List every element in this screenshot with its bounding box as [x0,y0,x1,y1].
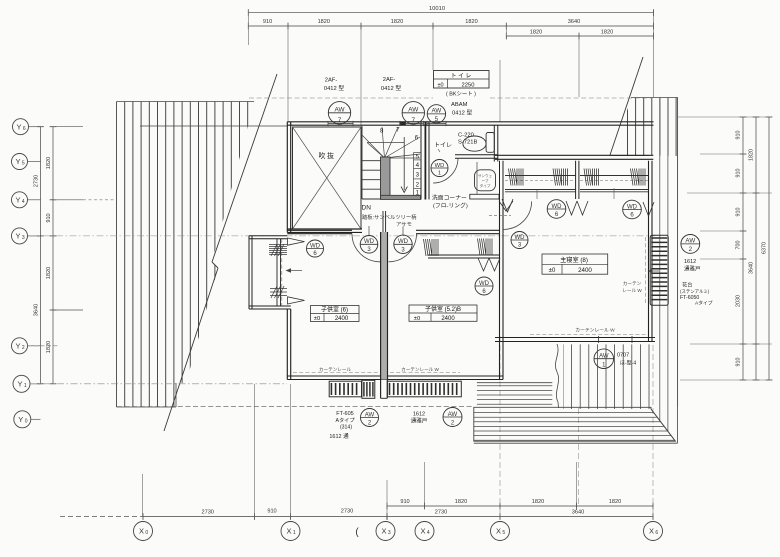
closet door fold marks [288,238,305,245]
svg-text:2: 2 [416,182,420,189]
svg-text:Y: Y [15,195,20,204]
svg-text:AW: AW [685,238,695,245]
shutter pointer arrow [649,270,659,272]
svg-text:4: 4 [22,199,25,205]
north wall hidden line under roof [140,125,287,127]
svg-text:7: 7 [396,126,400,133]
grid line Y1 dashed [30,383,287,385]
grid circle X4 [415,522,434,541]
grid circle Y4 [12,192,28,208]
svg-text:2400: 2400 [441,316,455,322]
svg-text:3: 3 [22,235,25,241]
svg-text:子供室 (5.2)B: 子供室 (5.2)B [425,305,461,313]
grid dash X5 [499,336,501,517]
closet left front line [276,239,278,306]
svg-text:X: X [139,527,144,536]
svg-text:910: 910 [263,19,272,25]
top dimension total line [248,12,653,14]
svg-text:1: 1 [24,383,27,389]
svg-text:WD: WD [552,204,563,210]
section cut line lower [164,268,218,431]
stair down arrow [403,137,405,190]
section cut line upper [212,74,277,262]
stair top wall dark mark [399,122,405,126]
grid dash X6 [652,345,654,517]
svg-text:トイレ: トイレ [434,143,452,149]
grid dash 579 [578,408,580,506]
left dimension line inner [52,127,54,384]
svg-text:AW: AW [408,107,419,114]
window strip B [387,381,461,397]
svg-text:2400: 2400 [578,267,592,274]
toilet fixture C-220 [486,133,494,153]
svg-text:AW: AW [448,412,458,418]
top dimension sub line right [506,35,653,37]
svg-text:1820: 1820 [601,30,613,36]
closet left shelf marks [269,244,287,246]
stair box [361,126,363,199]
svg-text:2730: 2730 [341,509,353,515]
svg-text:サンウェ: サンウェ [478,173,493,178]
svg-text:3: 3 [388,530,391,536]
eave hidden dashed line top [249,97,433,99]
0707 window marks [598,336,600,343]
bedroom east wall [648,161,650,342]
right dimension outer line [768,117,770,380]
svg-text:6: 6 [655,530,658,536]
svg-text:Y: Y [15,232,20,241]
svg-text:ほ-型-4: ほ-型-4 [620,360,636,367]
svg-text:ーブ: ーブ [482,178,489,183]
svg-text:AW: AW [599,354,609,360]
svg-text:2AF-: 2AF- [325,78,338,84]
grid circle Y2 [12,338,28,354]
bedroom south wall [495,337,655,339]
svg-text:910: 910 [46,213,52,222]
roomB closet futon marks [478,239,493,256]
stair right wall [420,122,422,200]
hall wall east of stair [425,122,427,200]
atrium [293,127,362,229]
svg-text:5: 5 [435,116,439,123]
atrium south wall [287,228,362,230]
svg-text:3: 3 [416,172,420,179]
svg-text:910: 910 [736,208,742,217]
svg-text:3640: 3640 [34,304,40,316]
middle wall pier [380,380,382,399]
svg-text:AW: AW [334,107,345,114]
window symbol AW5 [427,105,445,123]
svg-text:WD: WD [435,163,445,169]
svg-text:Y: Y [15,157,20,166]
stair number boxes [413,153,415,196]
roomB label box [409,305,477,321]
pillar box between windows [362,380,375,398]
svg-text:3640: 3640 [749,262,755,274]
grid circle Y1 [13,375,30,392]
left grid tick stubs [53,126,83,128]
grid circle X3 [376,522,395,541]
svg-text:1: 1 [438,170,441,176]
svg-text:WD: WD [398,239,409,245]
svg-text:1820: 1820 [455,499,467,505]
svg-text:S-721B: S-721B [458,140,477,146]
deck outer border [474,442,678,444]
svg-text:1820: 1820 [46,157,52,169]
door symbol WD3 right [394,235,412,253]
window symbol AW2 mid [443,408,462,427]
svg-text:通雅戸: 通雅戸 [411,417,428,425]
svg-text:0412 型: 0412 型 [324,84,345,92]
svg-text:1612 通: 1612 通 [329,432,349,440]
middle wall [381,232,388,380]
grid circle Y3 [12,228,28,244]
svg-text:Y: Y [18,415,23,424]
window glyph AW5 [427,123,446,125]
svg-text:4: 4 [416,162,420,169]
eave dashed line bottom-left [117,406,474,408]
svg-text:踏板:サンベルツリー柄: 踏板:サンベルツリー柄 [362,213,417,221]
svg-text:ABAM: ABAM [451,102,468,108]
middle wall stub [382,211,384,232]
svg-text:2030: 2030 [736,295,742,307]
roof hatch right block [628,98,677,157]
svg-text:2730: 2730 [435,510,447,516]
svg-text:主寝室 (8): 主寝室 (8) [560,256,588,264]
door WD3 room6 arc [352,234,380,262]
svg-text:10010: 10010 [429,6,445,12]
svg-text:DN: DN [362,205,372,212]
window glyph 2AF left [328,123,353,125]
grid circle X6 [644,522,663,541]
svg-text:3640: 3640 [568,19,580,25]
window symbol AW7 left [328,102,350,124]
closet hanger ticks [536,190,538,199]
curtain dash roomB [390,372,460,374]
svg-text:7: 7 [338,117,342,124]
svg-text:FT-605: FT-605 [336,411,353,417]
window symbol AW2 east [681,235,700,254]
svg-text:2: 2 [689,246,693,253]
svg-text:1612: 1612 [684,259,696,265]
closet left pole dashed [281,239,283,306]
svg-text:6: 6 [23,126,26,132]
svg-text:X: X [381,527,386,536]
deck upper-left boards [477,385,552,387]
svg-text:AW: AW [432,108,442,115]
svg-text:(フロ-リング): (フロ-リング) [433,202,468,210]
curtain dash room6 [293,372,378,374]
svg-text:1612: 1612 [413,412,425,418]
deck terrace miter [651,409,675,441]
svg-text:5: 5 [22,161,25,167]
svg-text:910: 910 [736,131,742,140]
bedroom closet west wall [499,161,501,199]
svg-text:アサモ: アサモ [396,221,412,228]
svg-text:X: X [420,527,425,536]
svg-text:700: 700 [736,241,742,250]
svg-text:WD: WD [479,281,490,287]
west wall lower [286,309,288,380]
svg-text:±0: ±0 [314,316,320,322]
svg-text:2AF-: 2AF- [383,77,396,83]
svg-text:WD: WD [627,204,638,210]
svg-text:1820: 1820 [318,19,330,25]
closet left futon marks lower [270,286,287,298]
svg-text:1820: 1820 [46,341,52,353]
svg-text:2730: 2730 [201,510,213,516]
svg-text:8: 8 [380,128,384,135]
stair tread line 5 [385,157,421,159]
west wall upper [286,122,288,233]
svg-text:通雅戸: 通雅戸 [684,265,701,273]
bottom dimension line left [60,516,143,518]
stair bottom landing bar [381,195,421,199]
closet left outer wall [248,236,250,309]
rooms north wall segment B [416,229,500,231]
window glyph 2AF right [400,123,424,125]
svg-text:FT-6050: FT-6050 [680,295,699,301]
svg-text:±0: ±0 [414,316,420,322]
top dimension leaders [247,11,249,45]
deck terrace boards [474,412,654,414]
svg-text:2400: 2400 [335,316,349,322]
svg-text:±0: ±0 [437,82,443,88]
svg-text:WD: WD [310,243,321,249]
window strip A [329,381,361,397]
deck terrace outline [474,407,676,441]
door symbol WD6 room6 closet [307,240,324,257]
bedroom door vee [499,201,513,211]
window symbol AW2 left [361,409,379,427]
door symbol WD6 closetA [547,200,566,219]
room6 label box [311,306,360,322]
closet pointer arrow [287,270,302,272]
door symbol WD6 closetB [623,200,642,219]
svg-text:1: 1 [416,190,420,197]
bedroom west wall [499,199,501,234]
hall curtain dash [489,214,511,216]
svg-text:6370: 6370 [762,242,768,254]
vanity unit [475,170,496,191]
grid circle X0 [134,522,153,541]
roomB closet front [428,254,500,256]
grid circle X1 [281,522,300,541]
svg-text:C-220: C-220 [458,133,474,139]
svg-text:(314): (314) [340,425,352,431]
svg-text:3640: 3640 [572,510,584,516]
svg-text:910: 910 [400,499,409,505]
right dimension middle line [755,117,757,380]
svg-text:1820: 1820 [609,499,621,505]
roof right top edge [631,97,678,99]
door symbol WD6 roomB [475,277,493,295]
vanity counter [470,194,499,199]
svg-text:AW: AW [365,412,375,418]
window symbol AW7 right [402,102,424,124]
svg-text:Y: Y [15,341,20,350]
svg-text:WD: WD [364,239,375,245]
bedroom closet north wall [495,154,653,156]
svg-text:910: 910 [736,358,742,367]
svg-text:1820: 1820 [530,30,542,36]
svg-text:カーテンレール W: カーテンレール W [575,328,615,334]
svg-text:Aタイプ: Aタイプ [695,300,713,307]
roof left outline [117,101,255,103]
bottom leaders [142,474,144,517]
door symbol WD3 bedroom [511,232,528,249]
right eave strip [659,98,661,421]
stair winder rays [362,135,385,158]
svg-text:5: 5 [416,154,420,161]
svg-text:0: 0 [25,419,28,425]
svg-text:花台: 花台 [682,281,692,289]
svg-text:X: X [286,527,291,536]
bedroom closet middle divider [575,161,577,199]
svg-text:6: 6 [415,135,419,142]
svg-text:( BKシート ): ( BKシート ) [446,92,476,98]
east window shutter hatch [650,235,668,305]
bottom dimension upper line right [387,505,653,507]
roof right bottom edge [610,155,649,157]
grid line Y2 stub [28,345,61,347]
bedroom label box [542,254,608,274]
bedroom closet pole lines [505,175,576,177]
right dimension tick lines [678,116,772,118]
svg-text:吹抜: 吹抜 [319,151,336,160]
bedroom closet front line [505,189,576,191]
svg-text:910: 910 [267,509,276,515]
stair center rail [381,157,391,199]
svg-text:X: X [649,527,654,536]
window symbol AW 0707 [594,349,614,369]
deck break wavy line [555,344,558,408]
roomB east wall [499,234,501,380]
bedroom door arc [504,201,532,229]
svg-text:1820: 1820 [532,499,544,505]
svg-text:910: 910 [736,169,742,178]
roof hatch left block [117,102,248,408]
section cut line right roof [610,57,643,155]
closet vees [502,199,513,212]
svg-text:1820: 1820 [465,19,477,25]
svg-text:1820: 1820 [391,19,403,25]
roomB closet vees [478,258,489,271]
svg-text:Y: Y [17,379,22,388]
toilet east wall [493,125,495,161]
svg-text:X: X [496,527,501,536]
svg-text:子供室 (6): 子供室 (6) [321,306,348,314]
svg-text:1: 1 [293,530,296,536]
top dimension segment line [248,25,653,27]
section cut jog [212,262,218,268]
north wall [287,121,653,123]
svg-text:2250: 2250 [462,82,475,88]
svg-text:5: 5 [502,530,505,536]
svg-text:ト イ レ: ト イ レ [451,74,472,80]
svg-text:0412 型: 0412 型 [452,109,473,117]
svg-text:1820: 1820 [46,267,52,279]
toilet south wall [455,154,498,156]
svg-text:4: 4 [427,530,430,536]
grid circle X5 [491,522,510,541]
svg-text:0: 0 [145,530,148,536]
left dimension line outer [40,127,42,384]
door symbol WD1 [431,160,448,177]
svg-text:Aタイプ: Aタイプ [335,416,355,424]
bedroom closet futon marks [509,169,524,186]
svg-text:2: 2 [22,345,25,351]
stair treads left flight [362,160,381,162]
door WD1 arc [433,158,458,183]
bottom dimension lower line right [387,516,653,518]
grid circle Y5 [12,154,28,170]
svg-text:WD: WD [515,235,526,241]
svg-text:洗面コーナー: 洗面コーナー [432,194,467,202]
grid circle Y6 [13,119,29,135]
rooms north wall segment A [287,229,352,231]
svg-text:1820: 1820 [749,149,755,161]
door symbol WD3 left [360,236,378,254]
east curtain dash [645,237,647,305]
right dimension inner line [742,117,744,380]
toilet schedule table [434,71,490,89]
door WD3 roomB arc [389,234,417,262]
grid circle Y0 [14,411,31,428]
svg-text:±0: ±0 [549,268,556,274]
svg-text:Y: Y [16,122,21,131]
svg-text:2730: 2730 [34,175,40,187]
bedroom curtain dash [530,334,648,336]
svg-text:タイプ: タイプ [480,183,491,188]
grid line Y3 dashed [29,235,655,237]
rooms south wall [287,375,503,377]
svg-text:0412 型: 0412 型 [381,84,402,92]
svg-text:7: 7 [412,117,416,124]
svg-text:レール W: レール W [622,288,642,293]
